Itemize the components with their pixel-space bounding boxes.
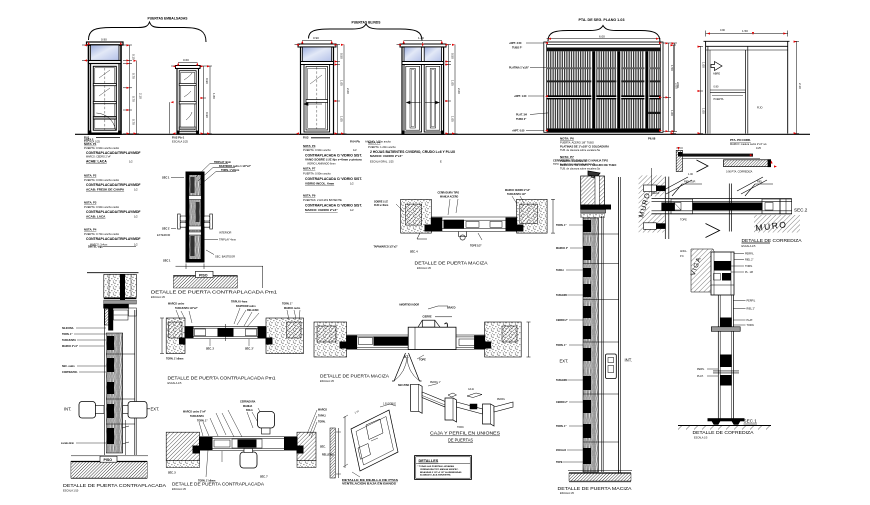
corrediza jamb assembly [644,168,675,239]
row2 contraplacada plan: right wall [297,432,316,467]
svg-text:NOTA: P4: NOTA: P4 [84,228,97,232]
corrediza leader marks [662,177,773,196]
door elevation P3 [298,44,336,134]
svg-text:CEDRO 2": CEDRO 2" [556,319,568,322]
maciza vertical lintel [581,176,611,218]
svg-text:1.00: 1.00 [702,62,706,68]
svg-text:PISO: PISO [199,273,208,277]
svg-text:MECA: MECA [652,192,660,195]
svg-text:TRIPLAY 4mm: TRIPLAY 4mm [219,238,236,242]
maciza handle [606,354,617,379]
svg-text:SEC. 2: SEC. 2 [206,348,215,351]
svg-text:2.10: 2.10 [798,83,802,89]
door elevation P2 [176,66,201,135]
svg-text:NOTA: P7: NOTA: P7 [560,155,574,159]
svg-text:MARCO CEDRO 2"x4": MARCO CEDRO 2"x4" [505,189,530,192]
svg-text:TABLERO: TABLERO [556,379,568,382]
svg-text:TORN. 1": TORN. 1" [556,224,567,227]
svg-text:+NPT. 2.50: +NPT. 2.50 [509,42,522,45]
brace reja [548,26,660,43]
svg-text:MARCO: CEDRO 2"x4": MARCO: CEDRO 2"x4" [86,156,111,159]
corrediza open arrow [706,224,720,238]
svg-text:ESCALA 1/25: ESCALA 1/25 [172,139,188,143]
row1 contraplacada plan: door bars [185,324,266,341]
svg-text:PUERTA: 0.70m ancho cedro: PUERTA: 0.70m ancho cedro [84,232,120,236]
svg-text:PTA. P8 CORR.: PTA. P8 CORR. [730,138,751,142]
svg-text:CAJA Y PERFIL EN UNIONES: CAJA Y PERFIL EN UNIONES [430,431,500,436]
reja dimension top [547,38,661,40]
svg-text:1/2: 1/2 [134,243,138,247]
detalle puerta contraplacada Pm1 vertical section [186,172,204,262]
svg-text:SEC 1: SEC 1 [163,258,171,262]
svg-text:FIJO e=6mm: FIJO e=6mm [374,204,388,207]
brace group 2 [309,24,423,41]
svg-text:TRIPLAY 4mm: TRIPLAY 4mm [214,161,232,164]
svg-text:1.00: 1.00 [702,108,706,114]
svg-text:DETALLE DE PUERTA CONTRAPLACAD: DETALLE DE PUERTA CONTRAPLACADA Pm1 [151,290,277,296]
svg-text:2.10: 2.10 [355,410,361,414]
svg-text:MARCO cedro 2"x4": MARCO cedro 2"x4" [183,411,206,414]
svg-text:ESCALA 1/10: ESCALA 1/10 [63,489,79,492]
svg-text:1.00 DOBLE: 1.00 DOBLE [383,404,396,406]
svg-text:* TODAS LAS PUERTAS LLEVARAN: * TODAS LAS PUERTAS LLEVARAN [418,465,455,468]
row1 maciza plan: door closer [418,317,452,329]
svg-text:DETALLE DE PUERTA CONTRAPLACAD: DETALLE DE PUERTA CONTRAPLACADA [63,483,167,489]
Pm1 side labels [157,175,236,262]
svg-text:TORN.: TORN. [457,427,464,429]
svg-text:SEC. BASTIDOR: SEC. BASTIDOR [215,255,235,259]
svg-text:CIERRE: CIERRE [423,315,432,318]
svg-text:TAPAJ.: TAPAJ. [318,415,326,418]
svg-text:SEC.1: SEC.1 [744,419,758,424]
svg-text:0.90: 0.90 [720,29,725,32]
row2 contraplacada plan: leader labels [183,401,327,424]
svg-text:MARCO: CEDRO 2"x4": MARCO: CEDRO 2"x4" [370,154,403,158]
svg-text:P.02 Pb-1: P.02 Pb-1 [172,136,185,140]
svg-text:DETALLE DE PUERTA MACIZA: DETALLE DE PUERTA MACIZA [320,374,390,380]
svg-text:VENTILACION BAJA EN BANOS: VENTILACION BAJA EN BANOS [342,481,396,485]
svg-text:PUERTA: PUERTA [714,98,724,101]
svg-text:BASTIDOR cedro: BASTIDOR cedro [236,305,256,308]
svg-text:PLAT.: PLAT. [747,319,754,322]
central maciza plan: hinge piece below [417,232,482,241]
row1 maciza plan: left wall [314,322,347,357]
svg-text:PLAT.: PLAT. [697,375,704,378]
svg-text:TORN. 1"x8mm: TORN. 1"x8mm [221,169,240,172]
Pm1 handles [178,214,213,229]
svg-text:CERRADURA: CERRADURA [240,401,256,404]
svg-text:SEC. 2': SEC. 2' [245,348,254,351]
row2 contraplacada plan: left wall [166,432,199,467]
svg-text:CONTRAPLACADA/TRIPLAY/MDF: CONTRAPLACADA/TRIPLAY/MDF [86,210,141,214]
svg-text:ANCL.: ANCL. [680,250,688,253]
svg-text:FIJO: FIJO [757,107,762,110]
svg-text:MANIJA: MANIJA [243,405,252,408]
svg-text:PERN.: PERN. [697,368,705,371]
svg-text:BOLA: BOLA [246,409,253,412]
sliding door arrow glyph [711,62,722,71]
svg-text:AMORTIGUADOR: AMORTIGUADOR [399,303,419,306]
corrediza center guide [728,184,730,232]
maciza base [568,471,632,482]
svg-text:TUBO 2": TUBO 2" [516,118,527,121]
door P3 dimensions [295,41,347,134]
svg-text:NOTA: P7: NOTA: P7 [303,167,316,171]
svg-text:MARCO cedro: MARCO cedro [284,307,301,310]
svg-text:ACAB: FRESK DE CHAPA: ACAB: FRESK DE CHAPA [86,187,125,191]
row1 maciza plan: leader labels [399,303,456,318]
detalles box [415,456,472,480]
maciza vertical body [583,177,621,473]
svg-text:DETALLE DE REJILLA DE PTAS: DETALLE DE REJILLA DE PTAS [342,478,398,482]
svg-text:PLATINA 1"x1/8": PLATINA 1"x1/8" [509,67,530,70]
svg-text:TORN. 1": TORN. 1" [197,419,208,422]
svg-text:NOTA: P9: NOTA: P9 [303,194,316,198]
svg-text:TAPAMARCO 1/2"x2": TAPAMARCO 1/2"x2" [374,245,398,248]
svg-text:NOTA: P6: NOTA: P6 [560,137,574,141]
svg-text:0.90: 0.90 [205,112,209,118]
svg-text:ESCALA GRAL. 1/25: ESCALA GRAL. 1/25 [370,160,394,163]
svg-text:CONTRAPLACADA C/ VIDRIO SIST.: CONTRAPLACADA C/ VIDRIO SIST. [305,204,362,208]
svg-text:CONTRAPLACADA/TRIPLAY/MDF: CONTRAPLACADA/TRIPLAY/MDF [86,183,141,187]
svg-text:TUBO F°: TUBO F° [512,47,522,50]
row1 contraplacada plan: left wall [166,318,185,354]
svg-text:ESCALA 1/5: ESCALA 1/5 [417,267,432,270]
svg-text:TORN. 1"x8mm: TORN. 1"x8mm [166,358,183,361]
svg-text:CAJA: CAJA [468,388,474,391]
svg-text:RELLENO: RELLENO [322,454,334,457]
svg-text:INTERIOR: INTERIOR [219,231,232,235]
svg-text:0.70: 0.70 [132,96,136,102]
svg-text:PLATINAS DE 1"x1/8" C/ SOLDADU: PLATINAS DE 1"x1/8" C/ SOLDADURA [560,144,609,148]
svg-text:0.90: 0.90 [313,36,319,40]
row2 contraplacada plan: door bars [200,437,298,451]
door P4 dimensions [397,41,458,134]
svg-text:SEC.PISO: SEC.PISO [398,384,409,387]
svg-text:PUERTA: 0.90m ancho: PUERTA: 0.90m ancho [303,148,331,152]
svg-text:VIDRIO LAMINADO 6mm: VIDRIO LAMINADO 6mm [307,163,336,166]
row1 maciza plan: V swing [392,353,422,381]
reja de seguridad panel [544,42,663,132]
svg-text:DETALLE DE COFREDIZA: DETALLE DE COFREDIZA [693,430,754,435]
svg-text:XT.: XT. [404,355,409,359]
svg-text:0.15: 0.15 [132,54,136,60]
svg-text:SEC 1: SEC 1 [162,175,170,179]
svg-text:CEDRO 2": CEDRO 2" [556,401,568,404]
svg-text:ACAB: LACA: ACAB: LACA [86,214,106,218]
left vertical dim marks [122,420,129,455]
svg-text:TUB. de clausura sobre escale: TUB. de clausura sobre escalera 5a [560,149,600,152]
central maciza plan: left wall [401,199,432,233]
svg-text:1.05: 1.05 [339,80,343,86]
svg-text:NOTA: P2: NOTA: P2 [84,174,97,178]
svg-text:CERRADURA TIPO: CERRADURA TIPO [438,192,460,195]
svg-text:0.70: 0.70 [132,119,136,125]
svg-text:PUERTA: 1.20m ancho: PUERTA: 1.20m ancho [368,145,396,149]
svg-text:NOTA: P4: NOTA: P4 [368,140,381,144]
svg-text:ABRE: ABRE [713,72,720,76]
svg-text:TORN. 1": TORN. 1" [62,333,73,336]
viga hatched block [690,249,717,292]
svg-text:BASTIDOR cedro 1 1/2"x2": BASTIDOR cedro 1 1/2"x2" [219,165,252,168]
row2 under labels [168,446,334,483]
svg-text:MARCO 2"x4": MARCO 2"x4" [62,345,78,348]
svg-text:TAPAJ.: TAPAJ. [556,269,564,272]
left vertical black chunks [107,336,114,444]
svg-text:PERFIL: PERFIL [497,399,506,401]
reja left labels [509,42,530,133]
row1 maciza plan right dim [527,322,531,357]
svg-text:PERFIL: PERFIL [747,300,756,303]
svg-text:LINEA S: LINEA S [84,138,94,141]
svg-text:1.05: 1.05 [450,116,454,122]
svg-text:ESCALA 1/5: ESCALA 1/5 [694,437,708,440]
svg-text:RIEL SUP.: RIEL SUP. [684,181,696,184]
svg-text:ESCALA 1/5: ESCALA 1/5 [742,245,757,248]
svg-text:P.04 Pb: P.04 Pb [350,140,360,144]
sliding door dimensions [671,31,799,134]
left vertical handles [79,402,147,419]
svg-text:DETALLE DE PUERTA MACIZA: DETALLE DE PUERTA MACIZA [558,486,633,492]
svg-text:EXT.: EXT. [560,359,569,364]
svg-text:1/25: 1/25 [756,147,761,150]
svg-text:MARCO: CEDRO 2"x4": MARCO: CEDRO 2"x4" [305,208,338,212]
perspective wall detail [343,404,398,477]
row1 contraplacada plan: leader labels [168,301,301,312]
svg-text:RIEL 2": RIEL 2" [745,259,754,262]
svg-text:INT.: INT. [625,358,632,363]
svg-text:RIEL: RIEL [757,181,763,184]
svg-text:TAPAJUNTA: TAPAJUNTA [62,339,76,342]
svg-text:E: E [440,159,442,163]
small mark under reja text [588,171,600,178]
Pm1 top leaders [196,164,236,186]
svg-text:0.50: 0.50 [339,53,343,59]
svg-text:RIEL 2": RIEL 2" [747,308,756,311]
svg-text:SEC 1': SEC 1' [162,226,170,230]
svg-text:0.90 PTA. CORREDIZA: 0.90 PTA. CORREDIZA [726,171,753,174]
svg-text:PUERTA: 0.90m ancho: PUERTA: 0.90m ancho [303,171,331,175]
svg-text:ESCALA 1/5: ESCALA 1/5 [560,492,575,495]
svg-text:TOPE 1/2": TOPE 1/2" [470,245,482,248]
svg-text:INT.: INT. [64,406,71,411]
svg-text:1/2: 1/2 [134,187,138,191]
svg-text:TORN. 1": TORN. 1" [556,425,567,428]
axonometric caja y perfil [411,384,513,427]
svg-text:1/2: 1/2 [350,182,354,186]
brace group 1 [89,22,207,42]
svg-text:1.05: 1.05 [339,116,343,122]
svg-text:1.05: 1.05 [450,80,454,86]
svg-text:ESCALA 1/5: ESCALA 1/5 [172,488,187,491]
viga box detail [711,252,734,295]
svg-text:TOPE: TOPE [419,359,426,362]
corrediza vertical section [711,295,740,421]
notes under door P4 [368,140,456,163]
svg-text:2.00: 2.00 [675,83,679,89]
svg-text:PUERTAS EMBALSADAS: PUERTAS EMBALSADAS [148,17,189,21]
central maciza plan: leader labels above [374,189,530,207]
row1 maciza plan: door slab [347,327,485,349]
left notes text stack [84,138,141,246]
svg-text:MARCO cedro: MARCO cedro [168,303,185,306]
svg-text:1/2: 1/2 [129,159,133,163]
svg-text:TORN.: TORN. [745,265,753,268]
svg-text:1.20: 1.20 [418,36,424,40]
svg-text:P6.08: P6.08 [648,137,656,141]
door P2 dimensions [171,63,212,134]
svg-text:PL. 1/8: PL. 1/8 [745,271,754,274]
door elevation P1 [87,42,124,134]
svg-text:0.90: 0.90 [101,38,107,42]
muro corrediza plan: left wall [638,175,664,232]
svg-text:+NPT. 1.00: +NPT. 1.00 [514,95,527,98]
row1 pm1 plan left dim [160,318,164,354]
svg-text:0.80: 0.80 [714,86,719,89]
svg-text:DINTEL viga: DINTEL viga [88,246,103,249]
svg-text:PUERTA: 0.90m ancho cedro: PUERTA: 0.90m ancho cedro [84,205,120,209]
svg-text:PTA. DE SEG. PLANO 1-03: PTA. DE SEG. PLANO 1-03 [579,18,625,22]
svg-text:MARCO: madera cedro 2"x4" s/: MARCO: madera cedro 2"x4" s/e [730,143,767,146]
svg-text:PISO: PISO [104,458,113,462]
central maciza plan: door bars [431,217,516,232]
Pm1 bottom dim + floor [173,264,263,289]
svg-text:MANIJA ACERO: MANIJA ACERO [440,196,458,199]
svg-text:0.50: 0.50 [450,53,454,59]
svg-text:TABLERO: TABLERO [556,294,568,297]
svg-text:ESCALA 1/5: ESCALA 1/5 [151,296,166,299]
svg-text:SEC.2: SEC.2 [794,208,808,213]
middle notes text stack [303,144,362,212]
svg-text:6.00: 6.00 [599,34,605,38]
svg-text:SOBRE LUZ: SOBRE LUZ [374,200,388,203]
maciza vertical black chunks [583,220,591,464]
svg-text:ZOCALO: ZOCALO [556,449,566,452]
corrediza section base [678,419,771,426]
svg-text:SEC.: SEC. [320,446,326,449]
left vertical base [71,456,148,479]
sliding door elevation [704,41,790,133]
svg-text:TORN. 1": TORN. 1" [556,344,567,347]
door P1 dimensions [82,42,139,134]
svg-text:TUB. de clausura sobre escale: TUB. de clausura sobre escalera 5a [560,167,600,170]
svg-text:VANO SOBRE LUZ fijo e=6mm y: VANO SOBRE LUZ fijo e=6mm y pintura [305,157,362,161]
row2 lower closer [240,449,257,469]
svg-text:TAPAJUNTA 1/2": TAPAJUNTA 1/2" [507,193,526,196]
svg-text:MARCO 4": MARCO 4" [556,247,568,250]
svg-text:TAPAJUNTA 1/2"x2": TAPAJUNTA 1/2"x2" [175,307,198,310]
sliding door plan section [676,148,771,172]
svg-text:BISAGRAS 3 1/2"x3 1/2" ALUMINI: BISAGRAS 3 1/2"x3 1/2" ALUMINIZADAS [420,471,462,474]
row1 maciza plan: right wall [485,322,522,357]
svg-text:TORN.: TORN. [318,421,326,424]
door elevation P4 (double) [400,44,446,134]
svg-text:CONTRAZOC.: CONTRAZOC. [62,371,78,374]
svg-text:CONTRAPLACADA/TRIPLAY/MDF: CONTRAPLACADA/TRIPLAY/MDF [86,151,141,155]
svg-text:DE PUERTAS: DE PUERTAS [448,437,473,442]
maciza vertical crossbars [583,234,619,442]
svg-text:1.80: 1.80 [212,93,216,99]
svg-text:CERRADURA TIPO MANIJA S/ESPEC.: CERRADURA TIPO MANIJA S/ESPEC. [420,468,459,471]
svg-text:CONTRAPLACADA/TRIPLAY/MDF: CONTRAPLACADA/TRIPLAY/MDF [86,237,141,241]
svg-text:TORN.: TORN. [747,324,755,327]
svg-text:0.90: 0.90 [205,78,209,84]
corrediza right wall [754,215,800,233]
central maciza plan right dim [551,199,555,233]
central maciza plan: right wall [517,199,548,233]
svg-text:TRIPLAY 4mm: TRIPLAY 4mm [231,301,247,304]
svg-text:1/2: 1/2 [134,214,138,218]
row1 contraplacada plan: right wall [266,318,304,354]
row2 vertical strip wall [330,428,335,478]
svg-text:TOPE: TOPE [556,461,563,464]
svg-text:TAPAJUNTA: TAPAJUNTA [190,415,204,418]
left vertical labels [61,327,78,445]
svg-text:TORN. 1": TORN. 1" [282,303,293,306]
svg-text:PUERTA: 0.60m ancho cedro: PUERTA: 0.60m ancho cedro [84,178,120,182]
svg-text:zocalo 9cm: zocalo 9cm [61,442,74,445]
svg-text:0.60: 0.60 [183,58,189,62]
viga leaders [731,254,744,273]
svg-text:BRAZO: BRAZO [447,307,456,310]
svg-text:MARCO: MARCO [318,409,327,412]
svg-text:1.50: 1.50 [742,29,748,33]
svg-text:DETALLE DE PUERTA MACIZA: DETALLE DE PUERTA MACIZA [415,261,489,267]
svg-text:1/2: 1/2 [353,148,357,152]
svg-text:TIPO: de alluminio adonizado: TIPO: de alluminio adonizado 2x4cm Ts [553,163,596,166]
svg-text:PLAT. 3/4: PLAT. 3/4 [516,114,528,117]
svg-text:ESCALA 1/5: ESCALA 1/5 [168,382,183,385]
svg-text:2.60: 2.60 [457,88,461,94]
svg-text:NOTA: P3: NOTA: P3 [303,144,316,148]
svg-text:DETALLES: DETALLES [419,459,439,463]
maciza left small labels [556,224,568,464]
svg-text:NOTA: P3: NOTA: P3 [84,201,97,205]
svg-text:SEC. cedro: SEC. cedro [62,365,75,368]
svg-text:PERFIL: PERFIL [745,253,754,256]
svg-text:2.60: 2.60 [346,88,350,94]
svg-text:DETALLE DE PUERTA CONTRAPLACAD: DETALLE DE PUERTA CONTRAPLACADA Pm1 [168,375,276,381]
svg-text:ESCALA 1/5: ESCALA 1/5 [320,380,335,383]
svg-text:DETALLE DE PUERTA CONTRAPLACAD: DETALLE DE PUERTA CONTRAPLACADA [172,482,265,488]
svg-text:SEC. 7: SEC. 7 [260,476,268,479]
svg-text:1/2: 1/2 [350,208,354,212]
svg-text:PUERTA: 0.90m ancho cedro: PUERTA: 0.90m ancho cedro [84,146,120,150]
svg-text:NOTA: P1: NOTA: P1 [84,142,97,146]
row2 door closer top [258,412,275,435]
svg-text:2.10: 2.10 [139,93,143,99]
svg-text:CONTRAPLACADA C/ VIDRIO SIST.: CONTRAPLACADA C/ VIDRIO SIST. [305,177,362,181]
svg-text:TOPE: TOPE [680,219,687,222]
svg-text:F'C: F'C [680,255,684,258]
corrediza section labels [707,301,746,377]
svg-text:+NPT. 0.00: +NPT. 0.00 [512,130,525,133]
svg-text:0.70: 0.70 [132,73,136,79]
svg-text:1.00: 1.00 [688,173,693,176]
svg-text:SEC. 3: SEC. 3 [168,472,176,475]
svg-text:PUERTA: ACERO 1/8" TUBO: PUERTA: ACERO 1/8" TUBO [560,141,594,145]
svg-text:PUERTAS: 2 HOJAS BATIENTE: PUERTAS: 2 HOJAS BATIENTE [303,198,342,202]
svg-text:PERFIL 1": PERFIL 1" [430,382,441,384]
svg-text:ACAB: LACA: ACAB: LACA [86,159,107,163]
svg-text:SILICONA: SILICONA [62,327,74,330]
svg-text:EXTERIOR: EXTERIOR [157,233,170,237]
svg-text:VIDRIO INCOL. 6mm: VIDRIO INCOL. 6mm [305,182,335,186]
reja right dimensions [663,43,677,132]
svg-text:CERRADURA: DE EMBUTIR C/ MANIJ: CERRADURA: DE EMBUTIR C/ MANIJA TIPO [553,159,608,163]
svg-text:P.03: P.03 [303,136,309,140]
corrediza track rails [652,199,792,214]
